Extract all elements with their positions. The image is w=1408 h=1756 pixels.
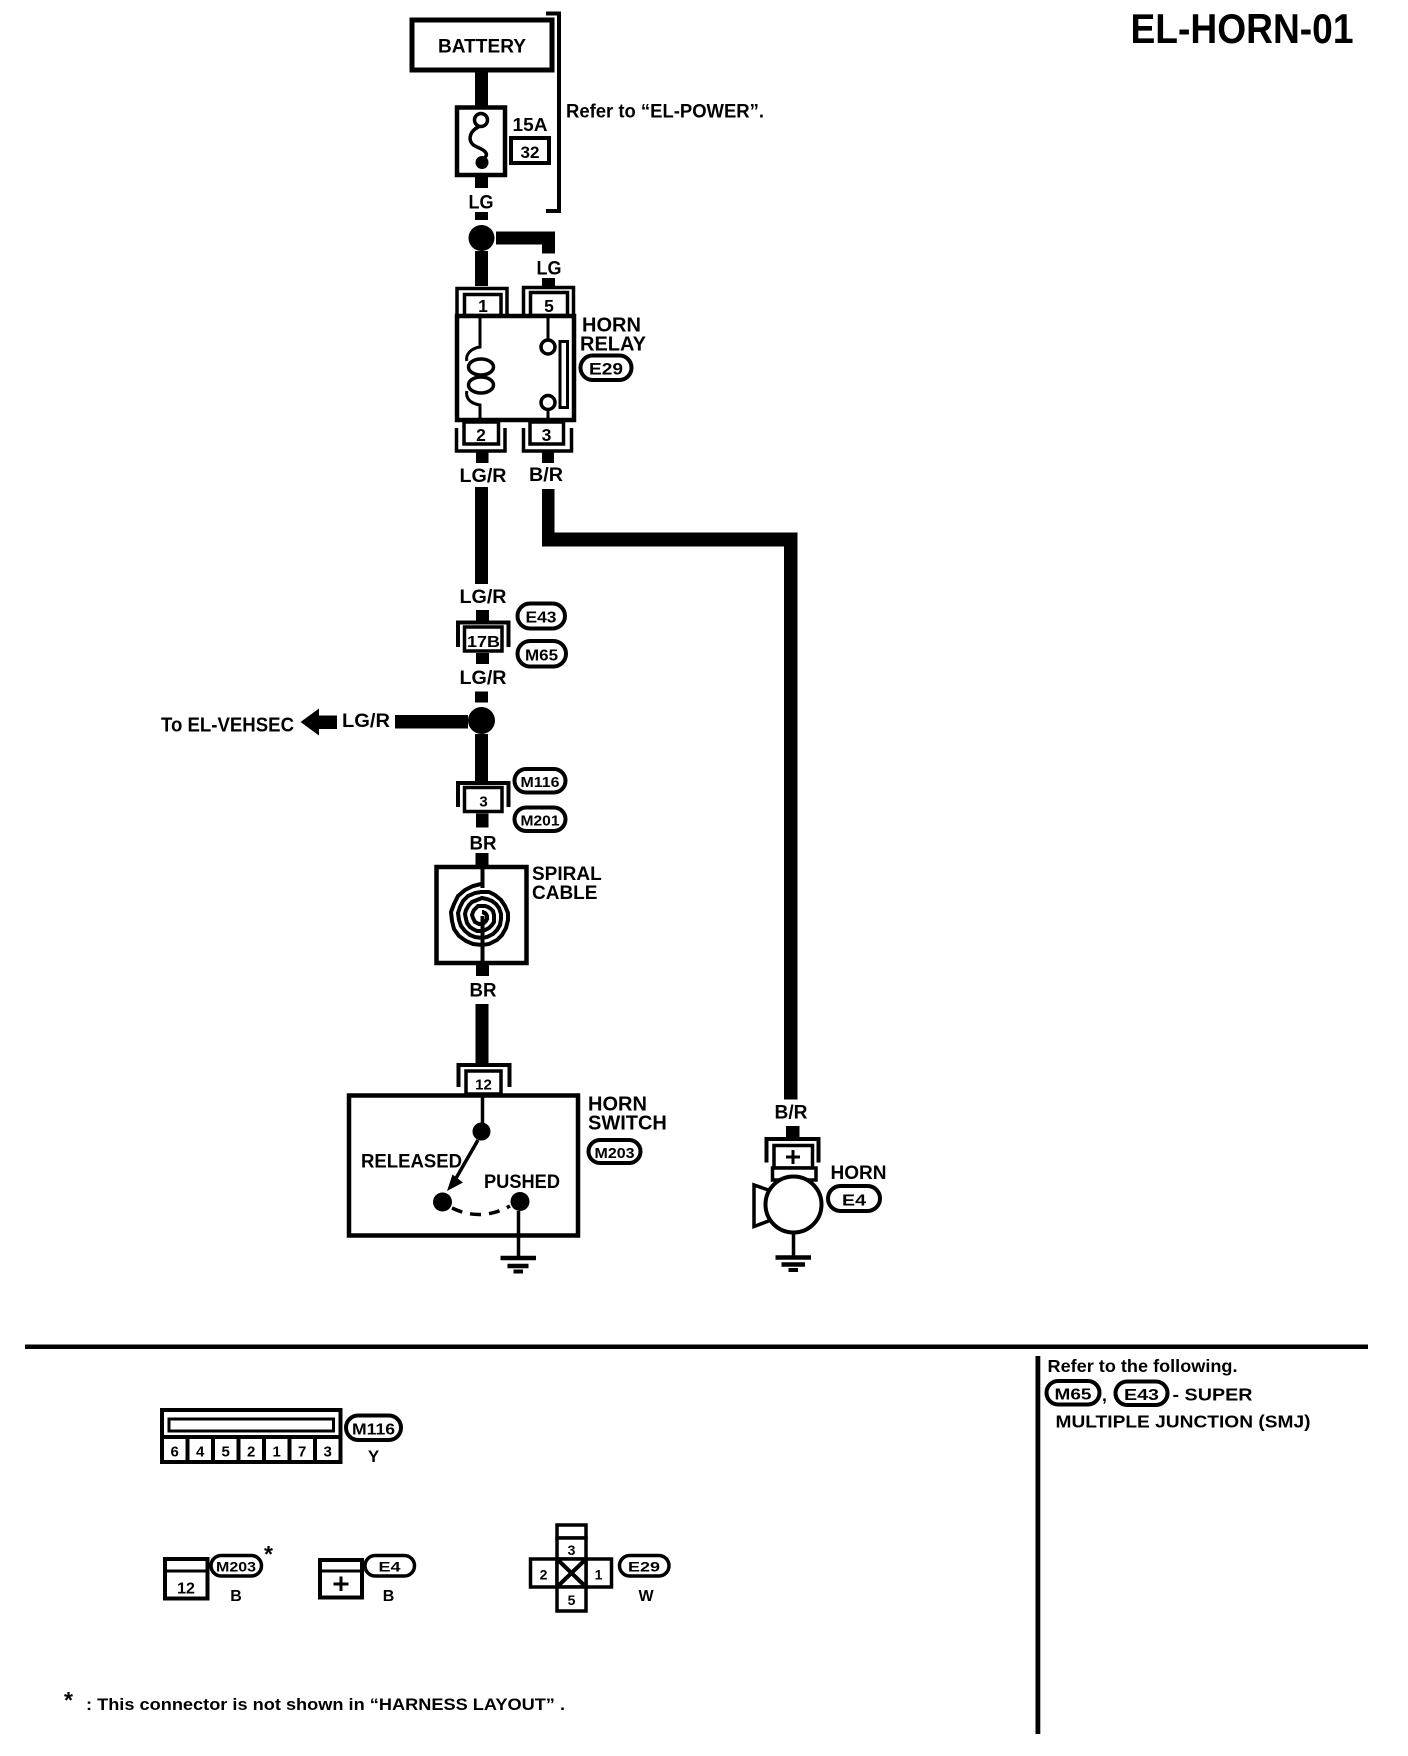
wire label LG/R below 17B	[460, 668, 507, 689]
svg-text:PUSHED: PUSHED	[484, 1171, 560, 1193]
wire arrow to junction B	[395, 715, 468, 729]
svg-text:3: 3	[568, 1542, 576, 1558]
junction dot B	[468, 707, 495, 734]
bottom oval E29	[620, 1556, 670, 1577]
fuse number box 32	[511, 138, 549, 163]
bottom label B (E4)	[383, 1588, 395, 1605]
connector oval E29	[581, 356, 632, 381]
wire branch to pin 5	[496, 232, 555, 254]
svg-text:E29: E29	[628, 1559, 660, 1575]
ground (horn switch)	[501, 1258, 537, 1272]
label HORN SWITCH	[588, 1094, 667, 1135]
arrow to EL-VEHSEC	[301, 709, 338, 736]
svg-text:LG: LG	[469, 192, 494, 214]
svg-text:LG/R: LG/R	[460, 668, 507, 689]
wire stub below pin 2	[476, 451, 489, 463]
svg-text:5: 5	[222, 1444, 230, 1461]
wire stub below pin 3	[542, 451, 554, 463]
wire label LG (branch)	[537, 258, 562, 280]
svg-text:M116: M116	[521, 774, 560, 791]
footnote asterisk	[64, 1687, 73, 1713]
svg-text:LG: LG	[537, 258, 562, 280]
wire stub below connector 3	[476, 814, 489, 828]
bottom connector E4 drawing	[320, 1560, 362, 1598]
svg-text:RELEASED: RELEASED	[361, 1151, 462, 1173]
connector oval M203 (mid)	[589, 1140, 641, 1163]
svg-text:LG/R: LG/R	[460, 466, 507, 487]
wire B/R vertical run to horn	[784, 533, 798, 1100]
relay contact	[541, 316, 568, 420]
svg-text:E4: E4	[379, 1559, 401, 1575]
svg-text:B/R: B/R	[529, 465, 563, 486]
svg-text:,: ,	[1102, 1385, 1107, 1405]
label HORN RELAY	[580, 315, 647, 356]
svg-text:1: 1	[273, 1444, 281, 1461]
connector oval E4	[828, 1186, 880, 1211]
wire label LG/R at arrow	[342, 711, 390, 732]
svg-text:M65: M65	[1055, 1387, 1092, 1404]
connector 3 (M116/M201)	[458, 783, 509, 812]
label Refer to EL-POWER	[566, 102, 764, 123]
svg-text:HORN: HORN	[831, 1163, 887, 1184]
svg-text:To EL-VEHSEC: To EL-VEHSEC	[161, 715, 294, 737]
svg-text:LG/R: LG/R	[460, 587, 507, 608]
svg-text:CABLE: CABLE	[532, 883, 597, 904]
wire label LG/R above 17B	[460, 587, 507, 608]
relay pin 1 connector	[457, 289, 507, 317]
horn ground lead	[792, 1232, 796, 1258]
wire stub below 17B	[476, 653, 489, 664]
svg-text:: This connector is not shown: : This connector is not shown in “HARNES…	[86, 1695, 565, 1714]
svg-text:M203: M203	[595, 1145, 635, 1162]
svg-text:12: 12	[177, 1581, 195, 1598]
footer text SUPER	[1173, 1385, 1253, 1405]
svg-text:M201: M201	[521, 813, 560, 830]
label SPIRAL CABLE	[532, 864, 602, 904]
svg-text:Refer to “EL-POWER”.: Refer to “EL-POWER”.	[566, 102, 764, 123]
svg-text:E4: E4	[842, 1193, 866, 1210]
bottom label Y	[368, 1447, 380, 1466]
svg-text:EL-HORN-01: EL-HORN-01	[1131, 5, 1354, 52]
svg-text:E43: E43	[1124, 1387, 1159, 1404]
wire stub below fuse	[475, 177, 488, 188]
svg-text:6: 6	[171, 1444, 179, 1461]
connector oval M201	[515, 808, 566, 832]
switch common contact	[473, 1123, 491, 1141]
wire label LG	[469, 192, 494, 214]
footnote text	[86, 1695, 565, 1714]
wire label BR	[470, 834, 497, 855]
svg-text:32: 32	[521, 143, 540, 162]
svg-text:12: 12	[475, 1077, 492, 1094]
svg-text:BR: BR	[470, 834, 497, 855]
footer comma	[1102, 1385, 1107, 1405]
pushed contact	[511, 1192, 530, 1211]
fuse rating label 15A	[513, 115, 548, 135]
label To EL-VEHSEC	[161, 715, 294, 737]
label PUSHED	[484, 1171, 560, 1193]
wire below junction B	[475, 734, 488, 782]
connector oval M116 (mid)	[515, 769, 566, 793]
bottom oval E4	[365, 1556, 415, 1577]
wire label BR lower	[470, 981, 497, 1002]
bottom connector M203 drawing	[165, 1559, 208, 1599]
asterisk at M203	[264, 1541, 273, 1567]
horn E4 body	[754, 1168, 822, 1233]
svg-text:3: 3	[479, 794, 487, 811]
footer oval E43	[1116, 1382, 1168, 1406]
svg-text:17B: 17B	[467, 634, 500, 651]
footer note refer to the following	[1048, 1356, 1238, 1376]
svg-text:*: *	[64, 1687, 73, 1713]
bottom oval M203	[211, 1556, 262, 1577]
SMJ connector 17B	[458, 623, 509, 652]
relay pin 5 connector	[524, 288, 574, 317]
svg-text:E29: E29	[589, 360, 623, 379]
wire battery to fuse	[475, 72, 488, 107]
svg-text:LG/R: LG/R	[342, 711, 390, 732]
svg-text:- SUPER: - SUPER	[1173, 1385, 1253, 1405]
wire label B/R	[529, 465, 563, 486]
switch ground lead	[517, 1211, 521, 1256]
svg-text:E43: E43	[526, 610, 557, 627]
relay coil	[467, 316, 494, 420]
footer separator line	[25, 1345, 1368, 1350]
svg-text:2: 2	[247, 1444, 255, 1461]
title EL-HORN-01	[1131, 5, 1354, 52]
junction dot A	[469, 225, 495, 251]
horn switch M203 body	[349, 1096, 578, 1236]
svg-text:BR: BR	[470, 981, 497, 1002]
svg-text:2: 2	[476, 425, 486, 445]
svg-text:Y: Y	[368, 1447, 380, 1466]
relay pin 2 connector	[457, 422, 506, 451]
svg-text:1: 1	[595, 1567, 603, 1583]
fuse 15A [32]	[457, 108, 505, 176]
svg-text:4: 4	[196, 1444, 205, 1461]
connector oval M65	[518, 641, 567, 667]
wire stub above relay pin 5	[542, 278, 555, 286]
svg-text:15A: 15A	[513, 115, 548, 135]
connector 12	[459, 1065, 510, 1094]
wire label LG/R	[460, 466, 507, 487]
spiral cable box	[437, 867, 527, 963]
svg-text:SWITCH: SWITCH	[588, 1113, 667, 1135]
EL-POWER reference bracket	[546, 14, 559, 212]
wire pin2 down	[475, 487, 488, 584]
wire junction to pin 1	[475, 251, 488, 286]
horn connector plus terminal	[767, 1139, 819, 1168]
wire label B/R at horn	[775, 1103, 808, 1124]
wire stub above 17B	[476, 610, 489, 621]
wire to horn switch	[476, 1004, 489, 1064]
wire stub above junction	[475, 212, 488, 220]
svg-text:*: *	[264, 1541, 273, 1567]
svg-text:3: 3	[542, 425, 552, 445]
battery B1	[412, 20, 552, 70]
bottom label W	[638, 1588, 654, 1605]
footer vertical divider	[1036, 1356, 1041, 1734]
svg-text:B: B	[230, 1588, 242, 1605]
svg-text:MULTIPLE JUNCTION (SMJ): MULTIPLE JUNCTION (SMJ)	[1056, 1412, 1311, 1432]
svg-text:1: 1	[478, 296, 488, 316]
svg-text:5: 5	[568, 1592, 576, 1608]
wire stub above junction B	[475, 692, 488, 703]
switch arm with arrow	[447, 1140, 478, 1191]
released contact	[433, 1193, 452, 1212]
label RELEASED	[361, 1151, 462, 1173]
dashed travel arc	[452, 1206, 510, 1215]
svg-text:2: 2	[540, 1567, 548, 1583]
switch common lead	[481, 1095, 485, 1124]
label HORN (E4)	[831, 1163, 887, 1184]
wire stub below spiral box	[476, 965, 489, 976]
wire B/R horizontal run	[542, 533, 798, 547]
bottom label B (M203)	[230, 1588, 242, 1605]
svg-text:SPIRAL: SPIRAL	[532, 864, 602, 885]
svg-text:3: 3	[324, 1444, 332, 1461]
svg-text:7: 7	[298, 1444, 306, 1461]
wire above spiral cable	[476, 853, 489, 867]
svg-text:M65: M65	[525, 648, 558, 665]
relay pin 3 connector	[524, 422, 572, 451]
footer oval M65	[1047, 1381, 1100, 1405]
svg-text:5: 5	[544, 296, 554, 316]
wire pin3 to corner	[542, 489, 555, 534]
svg-text:W: W	[638, 1588, 654, 1605]
footer text MULTIPLE JUNCTION	[1056, 1412, 1311, 1432]
svg-text:B/R: B/R	[775, 1103, 808, 1124]
svg-text:Refer to the following.: Refer to the following.	[1048, 1356, 1238, 1376]
bottom connector E29 drawing	[531, 1525, 612, 1611]
wire stub above horn connector	[786, 1126, 800, 1138]
horn relay E29 body	[457, 316, 574, 420]
svg-text:M203: M203	[216, 1559, 256, 1575]
bottom connector M116 drawing	[162, 1410, 341, 1462]
svg-text:M116: M116	[352, 1422, 395, 1439]
connector oval E43	[518, 604, 566, 629]
svg-text:RELAY: RELAY	[580, 334, 647, 356]
bottom oval M116	[346, 1416, 401, 1441]
ground (horn)	[776, 1258, 812, 1271]
svg-text:BATTERY: BATTERY	[438, 37, 526, 58]
svg-text:B: B	[383, 1588, 395, 1605]
